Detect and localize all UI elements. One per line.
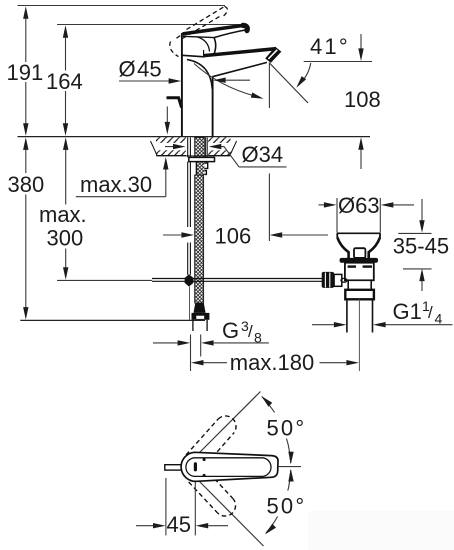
pop-up rod in hole: [187, 137, 189, 157]
dim 35-45: [393, 199, 449, 291]
horizontal pop-up actuating rod: [152, 279, 323, 282]
lever nose: [243, 25, 247, 30]
hose nut G3/8: [192, 313, 210, 320]
spout swing arc arrow: [194, 64, 261, 98]
washer plate under counter: [189, 157, 215, 161]
50deg label lower: [263, 491, 308, 517]
valve body: [345, 263, 374, 281]
node dim 191: [7, 6, 44, 136]
tailpipe: [346, 299, 348, 332]
tailpipe centre line: [358, 299, 360, 371]
indicator bar: [194, 462, 197, 471]
dim G1 1/4: [312, 298, 453, 327]
handle rotated 50deg down (dashed): [189, 468, 236, 516]
dim 108: [360, 34, 362, 50]
svg-text:max.: max.: [39, 202, 87, 227]
50deg arc upper: [262, 397, 291, 464]
handle inner contour: [186, 458, 271, 477]
dim G 3/8: [153, 318, 269, 357]
ball joint on rod: [185, 274, 194, 286]
valve lower section: [348, 280, 371, 290]
dim 45: [136, 478, 228, 537]
svg-text:max.180: max.180: [230, 350, 314, 375]
svg-text:108: 108: [344, 87, 381, 112]
dim Ø45 right arrow: [213, 78, 226, 83]
svg-text:50°: 50°: [267, 494, 307, 519]
wire below ball: [189, 287, 191, 320]
svg-text:106: 106: [215, 223, 252, 248]
wire reference line top (191 level): [18, 5, 226, 7]
svg-text:35-45: 35-45: [393, 234, 449, 259]
valve cap: [337, 232, 380, 234]
wire max300 reference / rod line: [57, 279, 152, 281]
svg-text:4: 4: [435, 311, 443, 327]
svg-text:G: G: [222, 318, 239, 343]
counter cross-section hatch: [151, 137, 237, 156]
node dim 380: [8, 137, 45, 319]
socket link plate: [334, 274, 342, 286]
lever handle top (thick): [182, 23, 246, 35]
pop-up rod knob: [167, 98, 182, 108]
dim Ø63: [319, 193, 415, 233]
svg-text:45: 45: [167, 512, 191, 537]
dashed lever raised position: [170, 6, 228, 56]
hose stub below nut: [192, 320, 194, 331]
screw dot lower: [203, 474, 206, 477]
svg-text:Ø34: Ø34: [242, 142, 284, 167]
50deg label upper: [263, 413, 308, 439]
cartridge dome arc: [197, 37, 210, 52]
valve stem block: [354, 248, 365, 258]
flexible supply hose (braided): [195, 175, 204, 303]
node dim max.300: [39, 137, 87, 279]
handle outline (plan): [181, 452, 278, 481]
node dim 164: [46, 25, 83, 136]
lever neck: [214, 38, 216, 56]
screw dot upper: [203, 458, 206, 461]
wire spout tip extension: [268, 64, 270, 109]
wire reference line (164 level): [57, 24, 246, 26]
dim max.180: [191, 350, 360, 375]
valve flange (seal ring): [340, 258, 378, 263]
spout top edge (thick): [204, 47, 277, 58]
pop-up rod below counter: [188, 162, 191, 275]
svg-text:164: 164: [46, 69, 83, 94]
mounting hole in counter: [186, 137, 208, 155]
svg-text:41°: 41°: [310, 34, 350, 59]
svg-text:max.30: max.30: [80, 172, 152, 197]
svg-text:/: /: [428, 303, 433, 322]
pop-up press arrow: [166, 107, 168, 123]
dim 106: [163, 234, 181, 236]
wire 50deg ray lower: [198, 480, 264, 547]
valve nut: [345, 290, 374, 300]
wire countertop line: [18, 136, 371, 138]
rod socket (knurled): [322, 272, 334, 288]
lever base bottom edge: [183, 36, 214, 37]
svg-text:Ø45: Ø45: [119, 57, 162, 82]
svg-text:Ø63: Ø63: [338, 193, 380, 218]
spout angle ray: [269, 63, 308, 104]
wire bottom reference line (380 level): [20, 319, 205, 321]
wire 50deg ray upper: [198, 392, 261, 455]
svg-text:191: 191: [7, 60, 44, 85]
handle pin stub left: [165, 465, 181, 470]
svg-text:380: 380: [8, 172, 45, 197]
svg-text:/: /: [248, 322, 253, 341]
lever underside: [214, 29, 248, 37]
threaded shank: [195, 137, 205, 157]
svg-text:50°: 50°: [267, 416, 307, 441]
50deg arc lower: [266, 470, 291, 533]
svg-text:G1: G1: [393, 299, 422, 324]
faucet body outline: [182, 33, 213, 137]
hose end fitting: [194, 303, 206, 313]
spout underside: [212, 62, 267, 76]
mounting nut steps: [196, 162, 207, 175]
spout nose / aerator tip: [265, 47, 281, 63]
svg-text:300: 300: [47, 225, 84, 250]
fixing stud: [205, 137, 207, 158]
drain valve U-assembly: [322, 233, 381, 371]
handle rotated 50deg up (dashed): [186, 416, 236, 469]
41 deg arc arrow: [298, 63, 311, 86]
wire handle axis right: [278, 466, 301, 468]
shank thread below washer: [197, 162, 205, 175]
